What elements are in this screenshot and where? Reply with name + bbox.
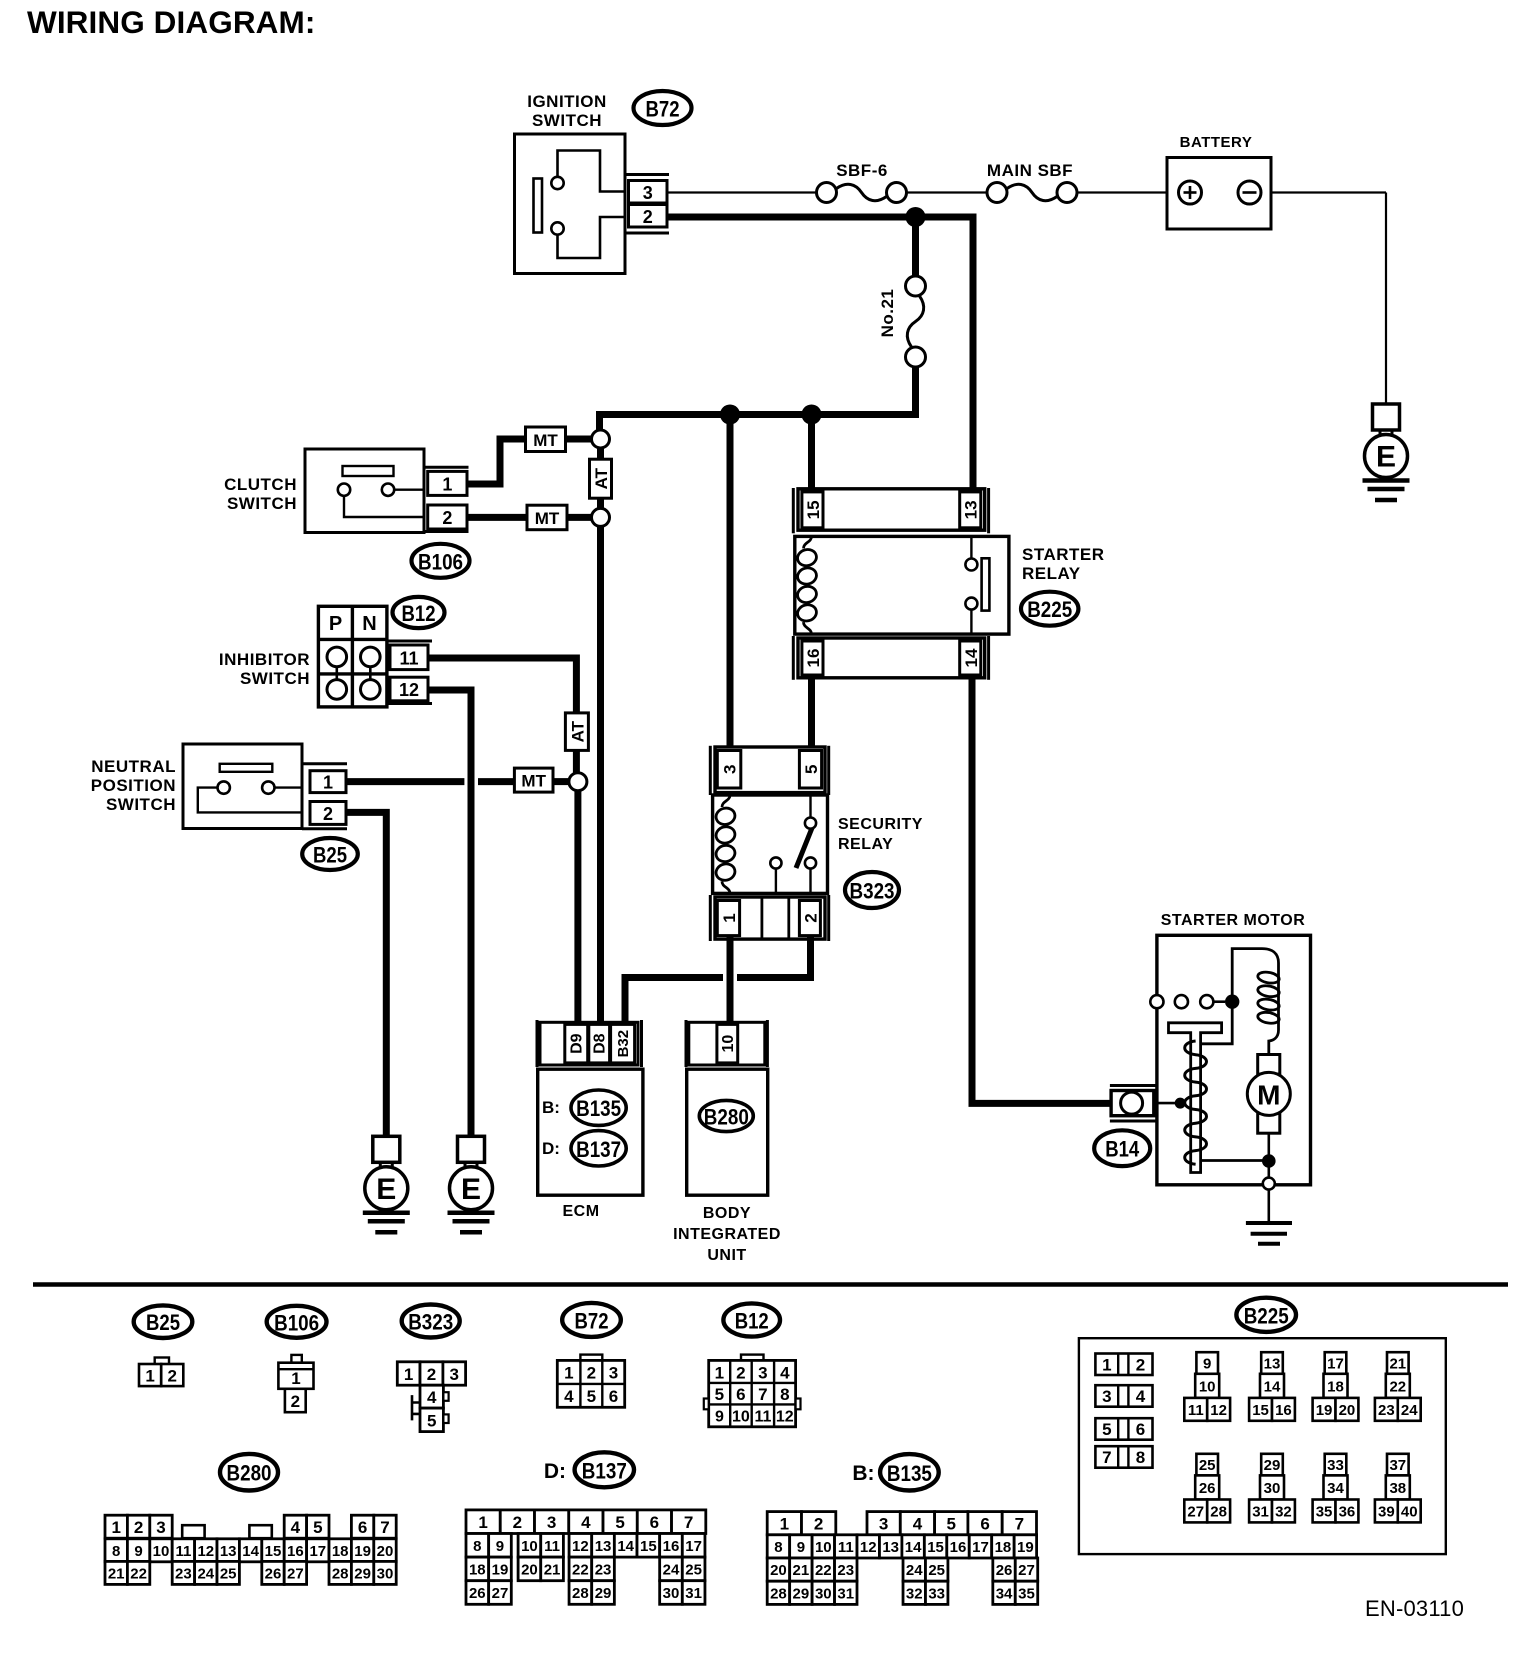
svg-text:MT: MT: [533, 431, 558, 450]
svg-text:19: 19: [354, 1543, 371, 1560]
connector label B106: [267, 1306, 327, 1338]
svg-text:11: 11: [1188, 1402, 1204, 1419]
fuse No.21: [878, 276, 926, 367]
connector label B72: [562, 1303, 621, 1337]
svg-text:B:: B:: [542, 1098, 560, 1117]
svg-text:18: 18: [332, 1543, 349, 1560]
svg-text:B225: B225: [1244, 1303, 1289, 1328]
svg-text:1: 1: [478, 1513, 487, 1532]
svg-text:B280: B280: [704, 1105, 749, 1130]
wire: neutral pin1 via MT to node (hop over pin12 wire): [346, 778, 464, 785]
svg-text:SWITCH: SWITCH: [240, 669, 310, 688]
svg-text:SWITCH: SWITCH: [227, 494, 297, 513]
svg-text:D:: D:: [544, 1460, 566, 1483]
svg-text:13: 13: [1264, 1356, 1281, 1373]
svg-text:6: 6: [358, 1518, 367, 1537]
svg-text:9: 9: [715, 1408, 724, 1425]
svg-text:36: 36: [1339, 1503, 1356, 1520]
svg-text:38: 38: [1389, 1480, 1406, 1497]
svg-text:3: 3: [547, 1513, 556, 1532]
svg-text:4: 4: [291, 1518, 301, 1537]
svg-text:3: 3: [450, 1365, 459, 1384]
svg-text:14: 14: [242, 1543, 259, 1560]
svg-text:14: 14: [1264, 1378, 1281, 1395]
svg-text:37: 37: [1389, 1457, 1406, 1474]
connector label B25: [134, 1305, 193, 1338]
svg-text:12: 12: [572, 1538, 589, 1555]
svg-text:13: 13: [595, 1538, 612, 1555]
svg-text:2: 2: [513, 1513, 522, 1532]
svg-text:B25: B25: [313, 843, 347, 868]
svg-text:5: 5: [615, 1513, 624, 1532]
security relay B323: [838, 816, 923, 853]
starter motor plunger spring: [1185, 1041, 1207, 1164]
svg-text:B135: B135: [576, 1096, 621, 1121]
wire: starter relay pin14 down and right to B14 starter motor: [972, 677, 1112, 1103]
svg-text:26: 26: [469, 1585, 486, 1602]
svg-text:11: 11: [544, 1538, 560, 1555]
svg-text:5: 5: [802, 765, 821, 774]
starter motor plunger (T lever): [1169, 1023, 1222, 1173]
svg-text:20: 20: [377, 1543, 394, 1560]
svg-text:15: 15: [265, 1543, 282, 1560]
svg-text:7: 7: [1015, 1515, 1024, 1534]
svg-text:16: 16: [287, 1543, 304, 1560]
svg-text:M: M: [1257, 1079, 1280, 1110]
svg-text:24: 24: [906, 1562, 923, 1579]
starter relay body: [795, 536, 1009, 634]
svg-text:26: 26: [1199, 1480, 1216, 1497]
wire: neutral pin2 down to ground E: [346, 812, 386, 1136]
svg-text:8: 8: [774, 1539, 782, 1556]
svg-text:30: 30: [377, 1565, 394, 1582]
svg-text:B12: B12: [735, 1309, 769, 1334]
svg-text:21: 21: [793, 1562, 810, 1579]
svg-text:B106: B106: [274, 1310, 319, 1335]
wire: junction down to security relay pin3: [727, 415, 734, 750]
svg-text:3: 3: [609, 1364, 618, 1383]
svg-text:INHIBITOR: INHIBITOR: [219, 650, 310, 669]
svg-text:21: 21: [108, 1565, 125, 1582]
ground (starter motor): [1246, 1190, 1292, 1244]
svg-text:20: 20: [770, 1562, 787, 1579]
svg-text:40: 40: [1401, 1503, 1418, 1520]
svg-text:1: 1: [145, 1367, 154, 1386]
junction dot below M: [1262, 1154, 1276, 1168]
svg-text:8: 8: [473, 1538, 481, 1555]
svg-text:26: 26: [996, 1562, 1013, 1579]
svg-text:18: 18: [995, 1539, 1012, 1556]
svg-text:10: 10: [732, 1408, 750, 1425]
svg-text:No.21: No.21: [878, 289, 897, 338]
node circle MT/AT upper: [592, 430, 610, 448]
wire: node down to ECM D9: [574, 791, 581, 1024]
svg-text:21: 21: [1389, 1356, 1406, 1373]
svg-text:5: 5: [715, 1385, 724, 1404]
svg-text:22: 22: [815, 1562, 832, 1579]
svg-text:3: 3: [643, 183, 653, 203]
svg-text:3: 3: [156, 1518, 165, 1537]
svg-text:6: 6: [736, 1385, 745, 1404]
svg-text:B72: B72: [575, 1308, 609, 1333]
svg-text:27: 27: [1187, 1503, 1204, 1520]
svg-text:14: 14: [617, 1538, 634, 1555]
svg-text:5: 5: [947, 1515, 956, 1534]
svg-text:19: 19: [492, 1561, 509, 1578]
svg-text:26: 26: [265, 1565, 282, 1582]
wire: starter relay pin16 down to security relay pin5: [808, 677, 815, 749]
inhibitor switch B12: [219, 606, 387, 707]
svg-text:29: 29: [1264, 1457, 1281, 1474]
svg-text:MT: MT: [521, 772, 546, 791]
connector label B323: [845, 872, 899, 908]
svg-text:28: 28: [332, 1565, 349, 1582]
svg-text:14: 14: [905, 1539, 922, 1556]
node circle on starter motor case: [1263, 1178, 1275, 1190]
svg-text:RELAY: RELAY: [1022, 564, 1081, 583]
svg-text:23: 23: [837, 1562, 854, 1579]
svg-text:2: 2: [643, 207, 653, 227]
svg-text:17: 17: [685, 1538, 702, 1555]
svg-text:B323: B323: [408, 1310, 453, 1335]
wire: fuse No.21 down, left along bus to MT/AT node: [600, 366, 916, 431]
svg-text:MT: MT: [535, 509, 560, 528]
svg-text:B225: B225: [1027, 597, 1072, 622]
svg-text:4: 4: [564, 1387, 574, 1406]
svg-text:2: 2: [814, 1515, 823, 1534]
inhibitor connector pins 11/12: [387, 641, 432, 704]
svg-text:15: 15: [927, 1539, 944, 1556]
svg-text:1: 1: [720, 913, 739, 922]
svg-text:11: 11: [175, 1543, 191, 1560]
svg-text:1: 1: [291, 1369, 300, 1388]
ground E (neutral): [363, 1136, 410, 1232]
svg-text:28: 28: [770, 1585, 787, 1602]
wire: ignition pin3 to battery (thin, through SBF-6 and MAIN SBF): [667, 191, 817, 193]
wire: clutch pin1 via MT to node: [467, 439, 600, 484]
security relay bottom connector pins 1/2: [710, 895, 828, 941]
svg-text:RELAY: RELAY: [838, 836, 893, 853]
svg-text:B:: B:: [852, 1462, 874, 1485]
svg-text:25: 25: [685, 1561, 702, 1578]
neutral position switch B25: [91, 744, 302, 829]
svg-text:21: 21: [544, 1561, 561, 1578]
svg-text:7: 7: [684, 1513, 693, 1532]
svg-text:13: 13: [962, 500, 981, 519]
svg-text:19: 19: [1017, 1539, 1034, 1556]
svg-text:29: 29: [595, 1585, 612, 1602]
svg-text:6: 6: [1136, 1420, 1145, 1439]
svg-text:17: 17: [309, 1543, 326, 1560]
connector label B280: [220, 1454, 278, 1491]
ECM with connectors D9/D8/B32: [537, 1020, 643, 1195]
svg-text:15: 15: [804, 500, 823, 519]
ground E (inhibitor): [448, 1136, 495, 1232]
svg-text:B25: B25: [146, 1310, 180, 1335]
svg-text:8: 8: [780, 1385, 789, 1404]
svg-text:3: 3: [758, 1363, 767, 1382]
svg-text:22: 22: [572, 1561, 589, 1578]
svg-text:9: 9: [797, 1539, 805, 1556]
svg-text:B106: B106: [418, 549, 463, 574]
svg-text:1: 1: [323, 773, 333, 793]
svg-text:32: 32: [906, 1585, 923, 1602]
svg-text:BODY: BODY: [703, 1205, 751, 1222]
svg-text:11: 11: [754, 1408, 771, 1425]
svg-text:UNIT: UNIT: [707, 1247, 746, 1264]
starter motor M: [1247, 1055, 1290, 1184]
svg-text:CLUTCH: CLUTCH: [224, 475, 297, 494]
junction dot bus/security relay: [720, 405, 740, 425]
connector label B137 (ECM): [571, 1131, 626, 1166]
svg-text:31: 31: [1252, 1503, 1269, 1520]
svg-text:11: 11: [399, 648, 418, 668]
svg-text:12: 12: [1210, 1402, 1227, 1419]
svg-text:14: 14: [962, 648, 981, 667]
wire: junction down to starter relay pin15: [808, 415, 815, 493]
connector label B14: [1094, 1130, 1150, 1166]
svg-text:12: 12: [860, 1539, 877, 1556]
wire: clutch pin2 via MT to node: [467, 514, 600, 521]
svg-text:15: 15: [1252, 1402, 1269, 1419]
connector label B135: [880, 1454, 939, 1490]
svg-text:30: 30: [815, 1585, 832, 1602]
svg-text:BATTERY: BATTERY: [1180, 134, 1253, 151]
svg-text:35: 35: [1316, 1503, 1333, 1520]
svg-text:13: 13: [882, 1539, 899, 1556]
svg-text:1: 1: [1102, 1356, 1111, 1375]
svg-text:1: 1: [404, 1365, 413, 1384]
connector label B12: [723, 1303, 780, 1336]
AT box (inhibitor): [565, 713, 588, 751]
MT box (neutral): [514, 768, 553, 792]
svg-text:12: 12: [197, 1543, 214, 1560]
svg-text:D:: D:: [542, 1139, 560, 1158]
svg-text:9: 9: [496, 1538, 504, 1555]
svg-text:29: 29: [354, 1565, 371, 1582]
svg-text:1: 1: [780, 1515, 789, 1534]
starter motor solenoid contacts: [1150, 995, 1239, 1009]
svg-text:12: 12: [399, 680, 419, 700]
svg-text:1: 1: [564, 1364, 573, 1383]
fuse SBF-6: [817, 161, 907, 203]
svg-text:17: 17: [972, 1539, 989, 1556]
starter relay B225: [1022, 545, 1105, 583]
starter relay bottom connector pins 16/14: [793, 636, 988, 680]
svg-text:2: 2: [427, 1365, 436, 1384]
svg-text:2: 2: [801, 913, 820, 922]
svg-text:31: 31: [685, 1585, 702, 1602]
svg-text:B135: B135: [887, 1461, 932, 1486]
svg-text:11: 11: [838, 1539, 854, 1556]
connector label B135 (ECM): [571, 1090, 626, 1125]
svg-text:24: 24: [197, 1565, 214, 1582]
svg-text:STARTER: STARTER: [1022, 545, 1105, 564]
starter motor field coil: [1232, 949, 1280, 1055]
svg-text:6: 6: [650, 1513, 659, 1532]
connector label B280 (BIU): [699, 1100, 753, 1131]
svg-text:27: 27: [492, 1585, 509, 1602]
wire: security relay pin1 down to BIU pin10: [727, 937, 734, 1024]
svg-text:1: 1: [111, 1518, 120, 1537]
connector label B12: [393, 597, 445, 628]
svg-text:19: 19: [1316, 1402, 1333, 1419]
svg-text:N: N: [362, 613, 376, 635]
BIU caption: [673, 1205, 781, 1264]
svg-text:28: 28: [1210, 1503, 1227, 1520]
svg-text:6: 6: [980, 1515, 989, 1534]
svg-text:B137: B137: [582, 1458, 627, 1483]
svg-text:16: 16: [950, 1539, 967, 1556]
svg-text:18: 18: [1327, 1378, 1344, 1395]
svg-text:WIRING DIAGRAM:: WIRING DIAGRAM:: [27, 4, 315, 40]
svg-text:2: 2: [291, 1392, 300, 1411]
svg-text:P: P: [329, 613, 342, 635]
svg-text:7: 7: [758, 1385, 767, 1404]
svg-text:10: 10: [815, 1539, 832, 1556]
svg-text:9: 9: [1203, 1356, 1211, 1373]
svg-text:30: 30: [1264, 1480, 1281, 1497]
svg-text:28: 28: [572, 1585, 589, 1602]
svg-text:SWITCH: SWITCH: [532, 111, 602, 130]
node circle MT/AT lower: [592, 508, 610, 526]
connector label B72: [634, 91, 692, 125]
svg-text:4: 4: [581, 1513, 591, 1532]
svg-text:34: 34: [1327, 1480, 1344, 1497]
svg-text:SWITCH: SWITCH: [106, 795, 176, 814]
svg-text:D8: D8: [592, 1033, 609, 1054]
svg-text:23: 23: [175, 1565, 192, 1582]
svg-text:20: 20: [1339, 1402, 1356, 1419]
connector label B225: [1021, 592, 1078, 626]
svg-text:22: 22: [1389, 1378, 1406, 1395]
svg-text:22: 22: [130, 1565, 147, 1582]
svg-text:23: 23: [1378, 1402, 1395, 1419]
svg-text:2: 2: [323, 804, 333, 824]
svg-text:39: 39: [1378, 1503, 1395, 1520]
svg-text:10: 10: [720, 1035, 737, 1053]
svg-text:10: 10: [153, 1543, 170, 1560]
svg-text:SECURITY: SECURITY: [838, 816, 923, 833]
ignition connector pins 3/2: [625, 175, 669, 234]
AT box (clutch): [590, 459, 612, 498]
svg-text:3: 3: [721, 765, 740, 774]
svg-text:AT: AT: [568, 720, 587, 742]
svg-text:29: 29: [793, 1585, 810, 1602]
svg-text:20: 20: [521, 1561, 538, 1578]
svg-text:D9: D9: [569, 1033, 586, 1054]
clutch connector pins 1/2: [424, 467, 469, 531]
svg-text:10: 10: [1199, 1378, 1216, 1395]
svg-text:1: 1: [715, 1363, 724, 1382]
starter motor internal wires: [1201, 1002, 1269, 1161]
svg-text:7: 7: [380, 1518, 389, 1537]
wire: junction down to fuse No.21: [912, 217, 919, 277]
svg-text:AT: AT: [592, 467, 611, 489]
svg-text:7: 7: [1102, 1448, 1111, 1467]
ignition switch B72: [515, 92, 626, 274]
svg-text:E: E: [1376, 441, 1396, 474]
svg-text:27: 27: [1018, 1562, 1035, 1579]
wire: ignition pin2 thick to corner, down to starter relay pin13: [667, 217, 973, 492]
svg-text:9: 9: [134, 1543, 142, 1560]
svg-text:IGNITION: IGNITION: [527, 92, 607, 111]
wire: inhibitor pin12 down to ground E: [428, 690, 471, 1136]
svg-text:2: 2: [1136, 1356, 1145, 1375]
security relay body: [713, 795, 828, 893]
svg-text:NEUTRAL: NEUTRAL: [91, 757, 176, 776]
clutch switch B106: [224, 449, 424, 533]
svg-text:32: 32: [1275, 1503, 1292, 1520]
svg-text:B14: B14: [1105, 1137, 1140, 1162]
svg-text:15: 15: [640, 1538, 657, 1555]
svg-text:25: 25: [1199, 1457, 1216, 1474]
neutral connector pins 1/2: [302, 764, 347, 829]
svg-text:33: 33: [1327, 1457, 1344, 1474]
connector label B106: [412, 544, 470, 578]
fuse MAIN SBF: [987, 161, 1077, 203]
svg-text:23: 23: [595, 1561, 612, 1578]
svg-text:STARTER MOTOR: STARTER MOTOR: [1161, 912, 1306, 929]
svg-text:16: 16: [1275, 1402, 1292, 1419]
svg-text:4: 4: [780, 1363, 790, 1382]
svg-text:4: 4: [913, 1515, 923, 1534]
svg-text:24: 24: [663, 1561, 680, 1578]
svg-text:10: 10: [521, 1538, 538, 1555]
svg-text:2: 2: [134, 1518, 143, 1537]
svg-text:27: 27: [287, 1565, 304, 1582]
svg-text:E: E: [461, 1173, 481, 1206]
svg-text:POSITION: POSITION: [91, 776, 176, 795]
connector label B25: [302, 838, 358, 870]
svg-text:25: 25: [220, 1565, 237, 1582]
svg-text:B32: B32: [615, 1030, 632, 1058]
junction dot bus/starter relay: [802, 405, 822, 425]
security relay top connector pins 3/5: [710, 746, 828, 795]
connector label B225: [1236, 1298, 1296, 1332]
wire: inhibitor pin11 via AT to node: [428, 658, 576, 716]
svg-text:MAIN SBF: MAIN SBF: [987, 161, 1073, 180]
svg-text:8: 8: [112, 1543, 120, 1560]
svg-text:5: 5: [587, 1387, 596, 1406]
svg-text:35: 35: [1018, 1585, 1035, 1602]
svg-text:12: 12: [776, 1408, 794, 1425]
ground E (battery): [1363, 404, 1410, 500]
svg-text:2: 2: [442, 508, 452, 528]
svg-text:34: 34: [996, 1585, 1013, 1602]
svg-text:2: 2: [736, 1363, 745, 1382]
svg-text:5: 5: [313, 1518, 322, 1537]
connector label B137: [575, 1452, 634, 1487]
B14 connector: [1110, 1086, 1186, 1122]
svg-text:31: 31: [837, 1585, 854, 1602]
wire: security relay pin2 down/left to ECM B32 (hop over pin1 wire): [737, 937, 811, 978]
svg-text:24: 24: [1401, 1402, 1418, 1419]
svg-text:17: 17: [1327, 1356, 1344, 1373]
svg-text:ECM: ECM: [562, 1203, 599, 1220]
node circle MT/AT (neutral/inhibitor): [569, 773, 587, 791]
svg-text:3: 3: [879, 1515, 888, 1534]
svg-text:3: 3: [1102, 1387, 1111, 1406]
svg-text:5: 5: [1102, 1420, 1111, 1439]
svg-text:E: E: [376, 1173, 396, 1206]
svg-text:EN-03110: EN-03110: [1365, 1596, 1464, 1621]
svg-text:8: 8: [1136, 1448, 1145, 1467]
svg-text:B12: B12: [402, 601, 436, 626]
svg-text:33: 33: [928, 1585, 945, 1602]
svg-text:4: 4: [427, 1388, 437, 1407]
svg-text:16: 16: [663, 1538, 680, 1555]
